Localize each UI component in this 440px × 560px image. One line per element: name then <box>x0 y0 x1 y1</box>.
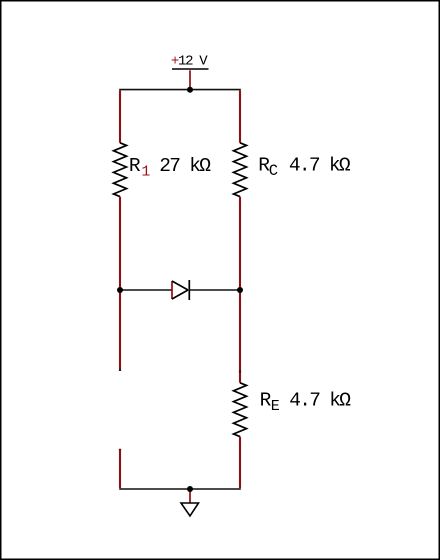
diode D1 <box>172 281 188 299</box>
wire: bottom horizontal <box>119 488 241 490</box>
svg-text:1: 1 <box>141 164 150 181</box>
node ground junction <box>187 486 193 492</box>
node top junction <box>187 87 193 93</box>
svg-text:4.7 kΩ: 4.7 kΩ <box>289 390 351 412</box>
pin end tick <box>239 370 241 372</box>
wire: left branch upper <box>119 90 121 142</box>
wire: left branch lower segment from open end <box>119 449 121 451</box>
wire: top horizontal <box>119 89 241 91</box>
wire: diode anode side <box>120 289 172 291</box>
wire: power stub <box>189 70 191 88</box>
power rail bar +12V <box>172 68 209 70</box>
resistor RC <box>234 143 247 197</box>
wire: ground stub <box>189 491 191 504</box>
wire: left branch below node, open end <box>119 290 121 370</box>
svg-text:+12 V: +12 V <box>171 53 208 69</box>
node left diode junction <box>117 287 123 293</box>
wire: right branch lower (RE to bottom) <box>239 437 241 489</box>
diode cathode bar <box>188 280 190 300</box>
node right diode junction <box>237 287 243 293</box>
wire: diode cathode side <box>189 289 240 291</box>
wire: left branch mid (R1 to diode node) <box>119 197 121 290</box>
pin end tick <box>119 369 121 371</box>
wire: right branch mid (RC to diode node) <box>239 197 241 290</box>
svg-text:E: E <box>271 398 280 415</box>
ground <box>181 503 199 516</box>
wire: right branch upper <box>239 90 241 142</box>
svg-text:4.7 kΩ: 4.7 kΩ <box>289 155 351 177</box>
wire: right branch diode node to RE <box>239 290 241 383</box>
svg-text:C: C <box>269 162 278 180</box>
resistor R1 <box>114 143 127 197</box>
svg-text:27 kΩ: 27 kΩ <box>159 155 211 177</box>
resistor RE <box>234 383 247 437</box>
